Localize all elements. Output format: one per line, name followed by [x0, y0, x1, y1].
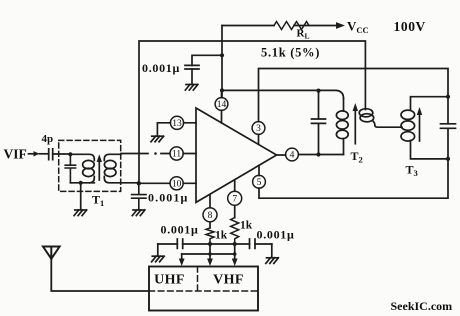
wire bus2 — [182, 244, 235, 254]
svg-text:0.001μ: 0.001μ — [142, 61, 180, 75]
node junction on pin-14 line (T2 drive) — [220, 88, 224, 92]
wire T1 bottom primary — [70, 182, 94, 184]
transformer T1 primary winding — [70, 154, 94, 160]
wire bottom bus 1 — [158, 243, 272, 245]
wire pin13 stub to ground — [157, 123, 196, 136]
capacitor T2 tank 0.001u — [312, 91, 326, 155]
transformer T2 primary winding — [343, 99, 345, 112]
arrow into tuner (right) — [234, 254, 236, 259]
wire pin14 stubs — [221, 90, 223, 123]
arrow into tuner (left) — [181, 254, 183, 259]
svg-text:100V: 100V — [394, 19, 426, 34]
node T2 tank cap top — [316, 89, 320, 93]
svg-text:1k: 1k — [215, 230, 228, 242]
wire pin10 stubs — [139, 182, 196, 184]
ground (pin 13) — [151, 136, 164, 142]
node bus1 x pin7 resistor — [233, 242, 237, 246]
svg-text:1k: 1k — [240, 220, 253, 232]
op-amp U1 amplifier triangle — [196, 108, 277, 202]
pin 10 circle — [170, 177, 183, 190]
transformer T1 secondary winding — [104, 154, 121, 160]
ground (pin10 bypass cap) — [132, 210, 145, 216]
transformer T3 winding — [411, 97, 449, 110]
svg-text:4p: 4p — [42, 133, 54, 145]
capacitor C 0.001u (top bypass) — [185, 65, 199, 69]
node pin10 / T1 bottom / bypass junction — [137, 181, 141, 185]
pin 14 circle — [215, 98, 228, 111]
capacitor 0.001u (pin10 bypass) — [132, 183, 146, 209]
pin 11 circle — [170, 147, 183, 160]
node T3 top junction — [446, 95, 450, 99]
tuner box dashed divider horizontal — [149, 290, 258, 292]
node T2 tank cap bottom — [316, 152, 320, 156]
svg-text:3: 3 — [256, 124, 261, 134]
svg-text:VIF: VIF — [4, 147, 27, 162]
resistor 1k (pin 7) — [231, 218, 239, 244]
svg-text:SeekIC.com: SeekIC.com — [391, 299, 453, 313]
capacitor 0.001u (bottom right) — [250, 239, 256, 248]
arrow into tuner (mid) — [209, 254, 211, 259]
wire pin4 to T2 bottom — [277, 154, 344, 157]
pin 4 circle — [286, 148, 299, 161]
transformer T1 core arrow — [98, 160, 100, 180]
wire Vcc rail from pin-14 node to RL — [222, 25, 274, 27]
wire antenna to tuner — [51, 259, 149, 291]
wire pin8 stub — [209, 194, 211, 228]
ground (bottom left) — [152, 256, 165, 262]
tuner box dashed divider vertical — [197, 267, 199, 292]
wire vertical pin-14 supply line — [221, 26, 223, 98]
node T1 ground junction — [79, 181, 83, 185]
svg-text:10: 10 — [172, 180, 182, 190]
pin 7 circle — [228, 191, 242, 205]
svg-text:0.001μ: 0.001μ — [148, 191, 188, 205]
wire cap to ground — [191, 69, 193, 84]
capacitor 4p — [49, 149, 53, 160]
svg-text:11: 11 — [172, 150, 181, 160]
ground (T1) — [74, 210, 87, 216]
wire RL to Vcc arrow — [294, 25, 336, 27]
antenna — [43, 247, 60, 259]
tuner box UHF/VHF — [149, 267, 258, 311]
svg-text:14: 14 — [217, 100, 227, 110]
node T1 input junction — [68, 152, 72, 156]
pin 13 circle — [170, 116, 183, 129]
svg-text:5: 5 — [257, 178, 262, 188]
node junction on pin-14 line (bypass cap) — [220, 53, 224, 57]
svg-text:4: 4 — [290, 151, 295, 161]
node T3 bottom junction — [446, 157, 450, 161]
wire left end to ground — [157, 244, 159, 256]
wire right end to ground — [271, 244, 273, 257]
resistor RL — [274, 22, 309, 30]
resistor 1k (pin 8) — [206, 228, 214, 244]
transformer T2 core arrow — [354, 109, 356, 144]
svg-text:8: 8 — [208, 211, 213, 221]
transformer T3 core arrow — [419, 113, 421, 141]
svg-text:7: 7 — [232, 195, 237, 205]
svg-text:5.1k (5%): 5.1k (5%) — [261, 46, 320, 60]
capacitor T1 tank — [65, 154, 75, 183]
capacitor 0.001u (bottom left) — [177, 239, 182, 248]
wire T1 ground stub — [80, 183, 82, 210]
wire right vertical lower section — [259, 128, 448, 198]
svg-text:UHF: UHF — [154, 273, 185, 288]
ground (bottom right) — [266, 258, 279, 264]
wire T2 drive run from pin14 node — [222, 90, 344, 98]
node bus2 junctions — [208, 252, 212, 256]
pin 3 circle — [252, 122, 265, 135]
wire pin7 stub — [234, 180, 236, 218]
svg-text:13: 13 — [172, 119, 182, 129]
pin 8 circle — [203, 208, 217, 222]
capacitor series on right vertical — [441, 124, 456, 129]
wire neutralization feedback loop (left vertical + top run to T2 secondary) — [139, 41, 365, 183]
svg-text:0.001μ: 0.001μ — [161, 223, 199, 237]
Vcc arrowhead — [336, 22, 345, 29]
wire VIF input arrow — [29, 153, 34, 155]
svg-text:0.001μ: 0.001μ — [257, 228, 295, 242]
wire pin3 to top-right run down to T3 tank — [259, 69, 449, 124]
ground (top bypass cap) — [185, 85, 198, 91]
pin 5 circle — [253, 175, 266, 188]
wire pin5 stub — [258, 166, 260, 176]
node bus1 x pin8 resistor — [208, 242, 212, 246]
wire pin3 stub — [258, 134, 260, 144]
wire bypass cap branch — [192, 55, 222, 65]
svg-text:VHF: VHF — [213, 273, 244, 288]
transformer T2 secondary winding — [359, 109, 373, 117]
wire pin11 stubs (dash-dot to T1) — [121, 153, 196, 155]
dashed shield box around T1 — [59, 140, 121, 191]
